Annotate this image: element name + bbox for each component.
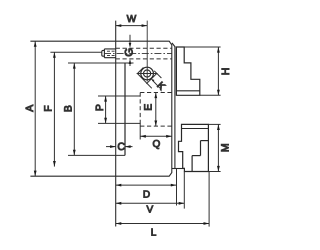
C dimension arrows [106,145,133,148]
socket vertical centerline / W right extension [146,21,148,82]
pinion stub cylinder [102,49,116,58]
L right extension line [208,172,210,227]
M top extension line [208,123,220,125]
svg-text:K: K [154,80,167,93]
svg-text:C: C [117,141,125,153]
V right extension line [183,172,185,209]
H bottom extension line [200,94,221,96]
W dimension line [116,24,148,27]
svg-text:L: L [151,228,157,239]
Q left extension line [139,123,141,139]
svg-text:M: M [219,143,231,152]
svg-text:Q: Q [153,139,161,150]
H top extension line [184,46,220,48]
jaw slot right edge [124,63,126,155]
L dimension line [116,222,209,225]
svg-text:F: F [42,105,54,111]
bottom jaw lip seam line [182,128,209,130]
svg-text:P: P [94,104,106,111]
E dimension line [154,93,157,127]
flange bottom edge [172,168,184,170]
bottom jaw outline [179,124,209,171]
chuck body outline [30,41,171,176]
B top extension line [68,62,134,64]
P bottom extension line [98,122,140,124]
Q dimension line [140,135,172,138]
B bottom extension line [68,154,125,156]
D dimension line [116,184,177,187]
V dimension line [116,202,185,205]
pinion axis centerline [104,53,172,55]
svg-text:G: G [123,48,135,57]
B dimension line [73,63,76,155]
F dimension line [53,52,56,166]
K dimension leader with arrow [151,79,160,89]
H dimension line [217,47,220,95]
svg-text:E: E [143,104,155,111]
P dimension line [104,96,107,123]
D right extension line [176,169,178,206]
flange front edge [172,43,175,169]
svg-text:A: A [24,105,36,112]
F top extension line [50,51,101,53]
jaw slot hidden outline (dashed box) [140,93,172,127]
svg-text:W: W [127,14,137,25]
G dimension arrows [129,35,132,66]
chuck key socket circles [141,67,154,80]
top jaw outline [176,47,199,95]
svg-text:D: D [143,189,150,200]
M dimension line [217,124,220,171]
svg-text:V: V [146,205,153,216]
socket cross horizontal centerline [137,73,158,75]
M bottom extension line [208,171,220,173]
top jaw base seam line [176,90,199,92]
bottom jaw inner step lines [192,141,208,172]
svg-text:H: H [220,68,232,76]
A dimension line [34,41,37,176]
svg-text:B: B [62,105,74,112]
pinion bore hidden lines [116,48,172,59]
jaw slot left edge / extension line [115,21,117,227]
P top extension line [98,95,140,97]
socket square (diamond) edges [137,68,161,89]
